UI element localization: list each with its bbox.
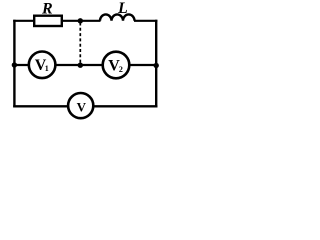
wire: top middle segment (resistor to inductor) <box>62 20 101 22</box>
voltmeter V2 <box>103 52 130 79</box>
wire: bottom horizontal side <box>13 105 157 107</box>
dashed link wire from top node to middle node <box>79 23 81 65</box>
voltmeter V <box>68 93 93 118</box>
svg-text:1: 1 <box>45 64 49 73</box>
wire: top left segment to resistor <box>13 20 35 22</box>
wire: right vertical side <box>155 20 157 108</box>
node: left junction dot <box>12 62 17 67</box>
wire: top right segment <box>134 20 157 22</box>
svg-text:2: 2 <box>119 65 123 74</box>
svg-text:L: L <box>117 0 128 17</box>
resistor R <box>34 16 62 26</box>
voltmeter V1 <box>29 52 56 79</box>
svg-text:R: R <box>41 1 53 18</box>
inductor L <box>100 14 135 20</box>
svg-text:V: V <box>77 99 87 114</box>
wire: left vertical side <box>13 20 15 108</box>
node: junction dot on top wire <box>78 18 83 23</box>
node: middle junction dot <box>78 62 83 67</box>
wire: middle horizontal branch <box>14 64 156 66</box>
node: right junction dot <box>154 63 159 68</box>
